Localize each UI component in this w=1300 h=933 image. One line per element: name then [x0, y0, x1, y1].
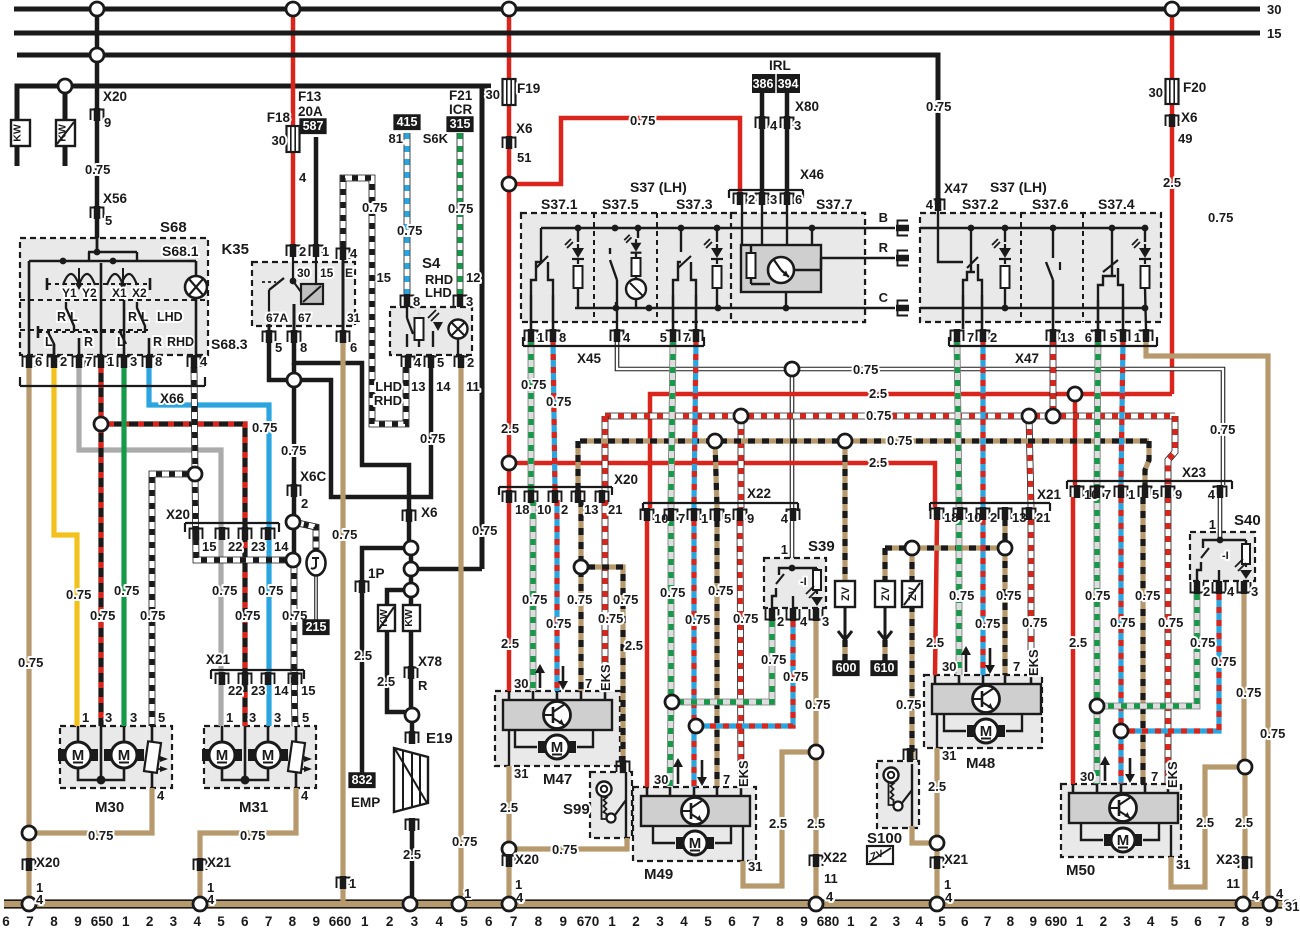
- svg-text:11: 11: [1226, 876, 1240, 891]
- svg-text:0.75: 0.75: [1260, 726, 1285, 741]
- svg-text:E19: E19: [426, 730, 453, 747]
- wire K35-67 to X6: [294, 342, 409, 548]
- S37 R line: [821, 257, 895, 259]
- svg-text:4: 4: [200, 354, 208, 369]
- svg-text:4: 4: [770, 118, 778, 133]
- svg-text:30: 30: [514, 676, 528, 691]
- S37.7 clock gauge: [741, 205, 743, 245]
- brown-black wire to ZV2 ZV3: [885, 545, 1005, 550]
- svg-text:7: 7: [984, 914, 992, 929]
- svg-text:5: 5: [704, 914, 712, 929]
- svg-text:10: 10: [967, 510, 981, 525]
- wires IRL to X46 via X80: [760, 93, 765, 192]
- svg-text:2: 2: [777, 614, 784, 629]
- svg-text:-I: -I: [1222, 550, 1229, 562]
- svg-text:X45: X45: [577, 351, 602, 366]
- green-white wire S40-2: [1104, 594, 1197, 706]
- svg-text:S6K: S6K: [423, 131, 449, 146]
- yellow wire S68-2 to M30-1: [54, 367, 77, 726]
- connector X23 pins 10 7 1 5 9 4: [1067, 480, 1232, 482]
- svg-text:M: M: [980, 723, 993, 740]
- svg-text:0.75: 0.75: [1190, 635, 1215, 650]
- svg-text:2.5: 2.5: [1235, 815, 1253, 830]
- svg-text:4: 4: [680, 914, 688, 929]
- svg-text:EMP: EMP: [351, 795, 380, 810]
- svg-text:2: 2: [60, 354, 67, 369]
- svg-text:4: 4: [299, 170, 307, 185]
- key switch S100 box: [877, 761, 919, 828]
- S37.2 switch and LED: [970, 228, 972, 272]
- svg-text:X20: X20: [36, 855, 60, 870]
- svg-text:0.75: 0.75: [522, 592, 547, 607]
- svg-text:S68.3: S68.3: [211, 336, 248, 352]
- svg-text:3: 3: [130, 710, 137, 725]
- svg-text:0.75: 0.75: [1208, 210, 1233, 225]
- connector X20 pin 1-4 right: [506, 854, 513, 867]
- svg-text:10: 10: [654, 511, 668, 526]
- svg-text:F20: F20: [1183, 80, 1206, 95]
- svg-text:832: 832: [352, 773, 373, 787]
- svg-text:S99: S99: [563, 801, 590, 818]
- svg-text:1: 1: [107, 354, 114, 369]
- svg-text:31: 31: [748, 859, 762, 874]
- svg-text:3: 3: [770, 192, 777, 207]
- svg-text:R: R: [84, 335, 93, 349]
- svg-text:1: 1: [1134, 330, 1141, 345]
- svg-text:X20: X20: [515, 852, 539, 867]
- S68 pins and X66 connector: [26, 355, 33, 368]
- svg-text:6: 6: [350, 340, 357, 355]
- svg-text:6: 6: [961, 914, 969, 929]
- svg-text:0.75: 0.75: [660, 585, 685, 600]
- svg-text:X23: X23: [1216, 852, 1241, 867]
- svg-text:31: 31: [942, 748, 956, 763]
- svg-text:B: B: [879, 210, 888, 225]
- svg-text:9: 9: [104, 115, 111, 130]
- S37.3 switch and LED: [680, 228, 682, 252]
- svg-text:R: R: [418, 678, 428, 693]
- svg-text:M: M: [216, 747, 229, 764]
- red wire bus30 via fuse F20: [1165, 2, 1179, 16]
- fuse F18: [287, 126, 300, 152]
- svg-text:0.75: 0.75: [853, 362, 878, 377]
- svg-text:S68.1: S68.1: [162, 243, 199, 259]
- svg-text:Y1: Y1: [62, 286, 77, 300]
- svg-text:4: 4: [1208, 487, 1216, 502]
- black-white wire S68-4: [194, 367, 195, 474]
- window motor M47 internals: [503, 700, 612, 730]
- svg-text:ZV: ZV: [880, 586, 892, 601]
- svg-text:49: 49: [1178, 131, 1192, 146]
- indicator lamp in S68: [185, 276, 207, 298]
- svg-text:11: 11: [466, 379, 480, 394]
- wire 1P to EMP 832: [360, 592, 365, 778]
- clock J and net 215: [293, 522, 316, 551]
- fuse F20: [1166, 79, 1179, 104]
- svg-text:0.75: 0.75: [926, 99, 951, 114]
- svg-text:18: 18: [515, 502, 529, 517]
- svg-text:M30: M30: [95, 799, 124, 816]
- window motor M48 box: [924, 675, 1042, 748]
- svg-text:30: 30: [942, 659, 956, 674]
- svg-text:215: 215: [306, 620, 327, 634]
- svg-text:0.75: 0.75: [1158, 615, 1183, 630]
- svg-text:2.5: 2.5: [377, 674, 395, 689]
- svg-text:X20: X20: [166, 507, 190, 522]
- svg-text:5: 5: [275, 340, 282, 355]
- svg-text:21: 21: [608, 502, 622, 517]
- M47 direction arrows: [539, 666, 542, 688]
- svg-text:1: 1: [349, 876, 356, 891]
- svg-text:0.75: 0.75: [1022, 615, 1047, 630]
- connector X21 pins 22 23 14 15: [211, 669, 304, 671]
- connector X6 pin: [406, 509, 413, 522]
- svg-text:2.5: 2.5: [501, 421, 519, 436]
- svg-text:X80: X80: [795, 99, 819, 114]
- connector X56 pin 5: [94, 206, 101, 219]
- svg-text:0.75: 0.75: [783, 669, 808, 684]
- connector X21 pin 1-4: [197, 858, 204, 871]
- red wire bus30 via fuse F19: [502, 2, 516, 16]
- wiper motor M30 box: [60, 726, 172, 788]
- svg-text:2.5: 2.5: [403, 847, 421, 862]
- svg-text:2: 2: [990, 510, 997, 525]
- svg-text:X1: X1: [112, 286, 127, 300]
- bus 15 wire: [14, 31, 1260, 36]
- svg-text:3: 3: [1251, 584, 1258, 599]
- svg-text:R: R: [879, 240, 889, 255]
- bus wire to X6 node: [17, 86, 482, 569]
- svg-text:M48: M48: [966, 755, 995, 772]
- bus 30 wire: [14, 7, 1260, 12]
- ground bus 31 wire: [4, 901, 1283, 908]
- svg-text:4: 4: [1227, 584, 1235, 599]
- svg-text:0.75: 0.75: [235, 608, 260, 623]
- net 832 EMP fuel pump: [348, 772, 375, 788]
- svg-text:KW: KW: [12, 124, 24, 142]
- svg-text:8: 8: [1242, 914, 1250, 929]
- svg-text:4: 4: [826, 889, 834, 904]
- svg-text:0.75: 0.75: [567, 592, 592, 607]
- svg-text:3: 3: [411, 914, 419, 929]
- connector X47 pins 7 2 13 6 5 1: [954, 329, 961, 342]
- svg-text:650: 650: [91, 914, 114, 929]
- svg-text:5: 5: [302, 710, 309, 725]
- net 587 from fuse F13: [299, 118, 326, 134]
- svg-text:0.75: 0.75: [332, 527, 357, 542]
- svg-text:15: 15: [320, 266, 334, 280]
- brown wire S40-3: [1241, 594, 1246, 760]
- svg-text:LHD: LHD: [425, 285, 452, 300]
- svg-text:1: 1: [322, 244, 329, 259]
- bus crossing patches: [284, 31, 302, 36]
- blue wire S68-8 to M31-3: [149, 367, 269, 726]
- red wire bus30 to K35-2: [291, 9, 296, 244]
- green wire S68-3 to M30-3: [121, 367, 126, 726]
- svg-text:EKS: EKS: [1165, 761, 1180, 788]
- svg-text:5: 5: [460, 914, 468, 929]
- black-white wire S68-4: [188, 467, 202, 481]
- svg-text:315: 315: [450, 117, 471, 131]
- wire K35-67 to X6C: [292, 363, 297, 560]
- svg-text:2: 2: [301, 496, 308, 511]
- connector X80 pins 4 3: [759, 116, 766, 129]
- blue-red wire S39-4: [703, 621, 793, 726]
- svg-text:0.75: 0.75: [1210, 422, 1235, 437]
- svg-text:S40: S40: [1234, 512, 1261, 529]
- svg-text:KW: KW: [378, 609, 390, 627]
- svg-text:1: 1: [226, 710, 233, 725]
- svg-text:5: 5: [158, 710, 165, 725]
- white wire X45-4 to X23-4: [617, 341, 1223, 485]
- window motor M50 internals: [1069, 793, 1178, 823]
- svg-text:15: 15: [377, 270, 391, 285]
- brown wire M31-4 to ground via X21-1: [200, 788, 296, 901]
- junction nodes: [58, 79, 72, 93]
- svg-text:2: 2: [561, 502, 568, 517]
- svg-text:3: 3: [105, 710, 112, 725]
- brown-black wire to ZV2 ZV3: [905, 541, 919, 555]
- svg-text:690: 690: [1045, 914, 1068, 929]
- svg-text:M: M: [72, 747, 85, 764]
- svg-text:6: 6: [1085, 330, 1092, 345]
- svg-text:394: 394: [778, 77, 799, 91]
- wire 587 to K35-1: [314, 137, 319, 244]
- red wire F19 to M47-30 and M48-30: [502, 456, 516, 470]
- KW resistor 1: [15, 146, 20, 166]
- svg-text:LHD: LHD: [157, 310, 183, 324]
- svg-text:15: 15: [1267, 26, 1281, 41]
- green-white wire S39-2: [679, 621, 772, 702]
- svg-text:18: 18: [944, 510, 958, 525]
- svg-text:X66: X66: [160, 391, 185, 406]
- connector X20 pin 1-4: [26, 858, 33, 871]
- svg-text:30: 30: [654, 772, 668, 787]
- svg-text:X47: X47: [944, 181, 968, 196]
- svg-text:3: 3: [466, 294, 473, 309]
- svg-text:0.75: 0.75: [708, 583, 733, 598]
- svg-text:3: 3: [794, 118, 801, 133]
- svg-text:3: 3: [822, 614, 829, 629]
- svg-text:3: 3: [1123, 914, 1131, 929]
- M48 direction arrows: [965, 648, 968, 672]
- svg-text:2.5: 2.5: [1163, 175, 1181, 190]
- brown wire to S99: [516, 838, 627, 849]
- black-white wire via X20-15: [195, 474, 293, 560]
- svg-text:1: 1: [82, 710, 89, 725]
- svg-text:13: 13: [584, 502, 598, 517]
- svg-text:M: M: [118, 747, 131, 764]
- white wire X45-4 to X23-4: [785, 362, 799, 376]
- svg-text:12: 12: [466, 270, 480, 285]
- svg-text:2.5: 2.5: [501, 636, 519, 651]
- connector X46 pins 2 3 6: [737, 192, 744, 205]
- svg-text:6: 6: [485, 914, 493, 929]
- wiper motor M31 box: [204, 726, 316, 788]
- svg-text:7: 7: [967, 330, 974, 345]
- svg-text:X6: X6: [1181, 110, 1198, 125]
- svg-text:1: 1: [781, 542, 788, 557]
- svg-text:0.75: 0.75: [552, 842, 577, 857]
- svg-text:31: 31: [347, 311, 361, 325]
- svg-text:M: M: [551, 739, 564, 756]
- svg-text:2: 2: [1100, 914, 1108, 929]
- S37 C line: [575, 307, 895, 309]
- svg-text:7: 7: [265, 914, 273, 929]
- svg-text:11: 11: [824, 871, 838, 886]
- svg-text:X6: X6: [421, 505, 438, 520]
- svg-text:S37.7: S37.7: [816, 196, 853, 212]
- svg-text:M: M: [689, 835, 702, 852]
- svg-text:0.75: 0.75: [66, 587, 91, 602]
- svg-text:4: 4: [1147, 914, 1155, 929]
- svg-text:2: 2: [632, 914, 640, 929]
- svg-text:13: 13: [1060, 330, 1074, 345]
- svg-text:5: 5: [105, 213, 112, 228]
- svg-text:0.75: 0.75: [546, 394, 571, 409]
- svg-text:30: 30: [1080, 769, 1094, 784]
- svg-text:X21: X21: [1037, 487, 1062, 502]
- svg-text:0.75: 0.75: [281, 443, 306, 458]
- svg-text:415: 415: [397, 115, 418, 129]
- svg-text:9: 9: [312, 914, 320, 929]
- svg-text:8: 8: [413, 294, 420, 309]
- svg-text:5: 5: [660, 330, 667, 345]
- red wire F20 to M49-30 and M50-30: [1068, 387, 1082, 401]
- svg-text:20A: 20A: [298, 104, 323, 119]
- svg-text:0.75: 0.75: [733, 611, 758, 626]
- svg-text:1: 1: [122, 914, 130, 929]
- svg-text:X56: X56: [103, 191, 128, 206]
- svg-text:F21: F21: [449, 88, 473, 103]
- M50 direction arrows: [1104, 758, 1107, 781]
- svg-text:2.5: 2.5: [354, 648, 372, 663]
- svg-text:4: 4: [414, 355, 422, 370]
- svg-text:0.75: 0.75: [630, 113, 655, 128]
- svg-text:S37 (LH): S37 (LH): [990, 179, 1047, 195]
- svg-text:KW: KW: [403, 609, 415, 627]
- svg-text:5: 5: [437, 355, 444, 370]
- svg-text:1P: 1P: [368, 566, 385, 581]
- svg-text:4: 4: [301, 788, 309, 803]
- svg-text:LHD: LHD: [375, 379, 402, 394]
- connector X6 pin 51: [506, 136, 513, 149]
- black-white wire S4-4 to K35-E: [343, 178, 406, 424]
- svg-text:ZV: ZV: [840, 586, 852, 601]
- connector 1P: [359, 580, 366, 593]
- svg-text:0.75: 0.75: [949, 588, 974, 603]
- svg-text:3: 3: [170, 914, 178, 929]
- svg-text:S37.1: S37.1: [541, 196, 578, 212]
- svg-text:13: 13: [411, 379, 425, 394]
- svg-text:8: 8: [1007, 914, 1015, 929]
- svg-text:2.5: 2.5: [807, 816, 825, 831]
- svg-text:2.5: 2.5: [928, 779, 946, 794]
- svg-text:0.75: 0.75: [896, 697, 921, 712]
- svg-text:7: 7: [1151, 769, 1158, 784]
- svg-text:X20: X20: [614, 472, 638, 487]
- svg-text:67: 67: [298, 311, 312, 325]
- svg-text:15: 15: [202, 539, 216, 554]
- svg-text:ICR: ICR: [449, 102, 473, 117]
- svg-text:0.75: 0.75: [1236, 685, 1261, 700]
- svg-text:680: 680: [817, 914, 840, 929]
- svg-text:660: 660: [329, 914, 352, 929]
- brown-black wires to motor pin 7: [580, 438, 1149, 443]
- svg-text:2: 2: [467, 355, 474, 370]
- green-white wire S6K to S4-3: [457, 133, 464, 294]
- svg-text:0.75: 0.75: [252, 420, 277, 435]
- blue-red wire S40-4: [1128, 594, 1219, 731]
- brown wire S39-3 to ground via X22-11: [813, 621, 818, 745]
- wire K35-67A to S4-5: [269, 342, 431, 497]
- svg-text:14: 14: [436, 379, 451, 394]
- svg-text:8: 8: [50, 914, 58, 929]
- black-white wire to M31-5: [294, 560, 295, 726]
- relay K35 pins 2 1 4: [290, 244, 297, 257]
- red wire bus30 via fuse F20: [1170, 9, 1175, 394]
- brown wire M50-31 to node: [1171, 767, 1238, 887]
- red-white EKS wires: [605, 413, 1175, 420]
- svg-text:0.75: 0.75: [598, 611, 623, 626]
- svg-text:2: 2: [146, 914, 154, 929]
- svg-text:R: R: [57, 310, 66, 324]
- svg-text:30: 30: [486, 87, 500, 102]
- svg-text:2: 2: [299, 244, 306, 259]
- svg-text:0.75: 0.75: [420, 431, 445, 446]
- svg-text:9: 9: [1029, 914, 1037, 929]
- svg-text:X21: X21: [206, 652, 231, 667]
- svg-text:7: 7: [585, 676, 592, 691]
- svg-text:0.75: 0.75: [362, 200, 387, 215]
- svg-text:S37.4: S37.4: [1098, 196, 1135, 212]
- wiper relay K35 box: [252, 262, 355, 326]
- svg-text:2.5: 2.5: [769, 816, 787, 831]
- svg-text:4: 4: [1276, 886, 1284, 901]
- svg-text:8: 8: [155, 354, 162, 369]
- svg-text:15: 15: [301, 683, 315, 698]
- svg-text:F19: F19: [517, 81, 540, 96]
- svg-text:0.75: 0.75: [866, 408, 891, 423]
- svg-text:S37.5: S37.5: [602, 196, 639, 212]
- brown wire M30-4 to ground: [36, 788, 152, 833]
- svg-text:S37 (LH): S37 (LH): [630, 179, 687, 195]
- svg-text:0.75: 0.75: [805, 697, 830, 712]
- wire bus30 to S68 via X20-9 X56: [95, 9, 100, 238]
- svg-text:S68: S68: [160, 219, 187, 236]
- S4 internals switch resistor lamp: [406, 306, 408, 318]
- svg-text:5: 5: [1152, 487, 1159, 502]
- svg-text:0.75: 0.75: [88, 828, 113, 843]
- svg-text:IRL: IRL: [769, 58, 791, 73]
- svg-text:4: 4: [623, 330, 631, 345]
- svg-text:22: 22: [228, 683, 242, 698]
- svg-text:M50: M50: [1066, 862, 1095, 879]
- svg-text:F18: F18: [267, 110, 291, 125]
- svg-text:0.75: 0.75: [887, 433, 912, 448]
- svg-text:4: 4: [435, 914, 443, 929]
- svg-text:3: 3: [249, 710, 256, 725]
- svg-text:M49: M49: [644, 866, 673, 883]
- svg-text:22: 22: [228, 539, 242, 554]
- svg-text:X78: X78: [418, 654, 443, 669]
- svg-text:7: 7: [752, 914, 760, 929]
- svg-text:4: 4: [915, 914, 923, 929]
- svg-text:M47: M47: [543, 771, 572, 788]
- svg-text:2: 2: [1203, 584, 1210, 599]
- svg-text:0.75: 0.75: [448, 201, 473, 216]
- svg-text:0.75: 0.75: [397, 223, 422, 238]
